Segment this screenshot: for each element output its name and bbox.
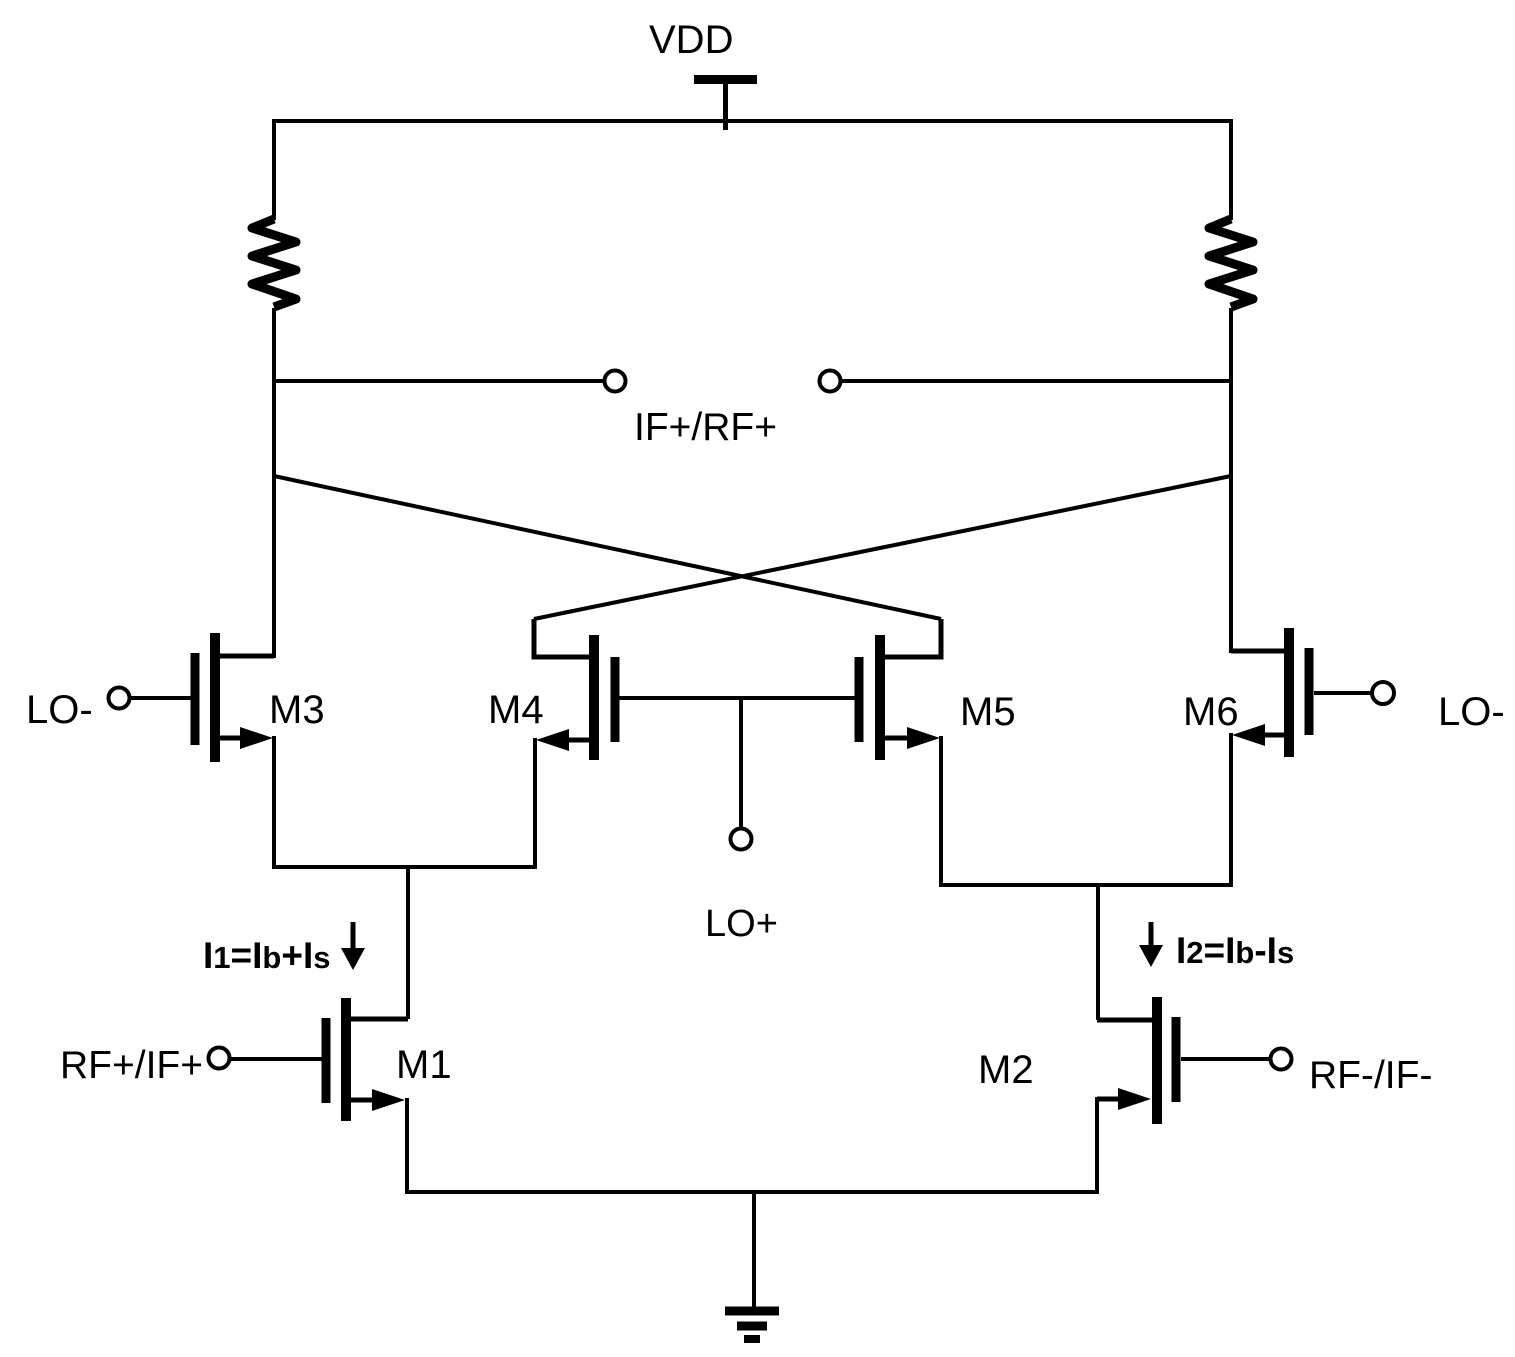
svg-text:IF+/RF+: IF+/RF+ (634, 406, 777, 449)
wire: node B joint (M5/M6 sources) (939, 885, 1233, 1020)
VDD power symbol (694, 80, 757, 131)
transistor M6 (1231, 628, 1314, 885)
svg-text:M2: M2 (978, 1048, 1034, 1092)
transistor M5 (855, 619, 942, 885)
svg-text:M1: M1 (396, 1043, 452, 1087)
svg-text:M6: M6 (1183, 690, 1239, 734)
wire: IF+/RF+ right branch (842, 379, 1233, 383)
svg-text:RF+/IF+: RF+/IF+ (60, 1044, 203, 1087)
svg-text:LO+: LO+ (705, 903, 778, 945)
wire: cross-couple left rail to M5 drain (274, 476, 941, 619)
wire: cross-couple right rail to M4 drain (534, 476, 1231, 619)
svg-text:LO-: LO- (1438, 690, 1505, 734)
terminal LO- right (1314, 682, 1394, 704)
resistor R1 (left load) (252, 219, 296, 307)
transistor M1 (322, 998, 409, 1192)
resistor R2 (right load) (1209, 219, 1253, 307)
current arrow I2 (1139, 922, 1163, 967)
svg-text:I1=Ib+Is: I1=Ib+Is (203, 935, 331, 976)
svg-text:M4: M4 (488, 688, 544, 732)
wire: node A joint (M3/M4 sources) (272, 867, 537, 1019)
svg-text:RF-/IF-: RF-/IF- (1309, 1054, 1432, 1097)
wire: top VDD rail (272, 119, 1233, 123)
wire: right rail (VDD to M6 drain) (1229, 119, 1233, 653)
terminal LO- left (109, 688, 192, 709)
terminal: IF+/RF+ left circle (605, 371, 626, 392)
wire: bottom rail (sources of M1/M2) (405, 1190, 1099, 1194)
svg-text:LO-: LO- (26, 688, 93, 732)
terminal RF+/IF+ (209, 1048, 323, 1069)
ground (725, 1192, 779, 1339)
node LO+ (gate line, stem, terminal, label) (619, 698, 855, 850)
transistor M2 (1097, 997, 1181, 1192)
svg-text:M5: M5 (960, 690, 1016, 734)
wire: left rail (VDD to M3 drain) (272, 119, 276, 658)
svg-text:VDD: VDD (649, 18, 733, 62)
current arrow I1 (341, 922, 365, 970)
terminal: IF+/RF+ right circle (820, 371, 841, 392)
transistor M3 (191, 633, 275, 867)
transistor M4 (534, 619, 620, 867)
svg-text:I2=Ib-Is: I2=Ib-Is (1176, 930, 1294, 971)
terminal RF-/IF- (1181, 1049, 1292, 1070)
svg-text:M3: M3 (269, 688, 325, 732)
wire: IF+/RF+ left branch (272, 379, 603, 383)
